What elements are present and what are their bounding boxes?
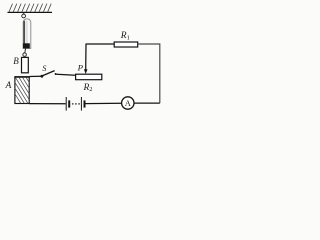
- top wire corner to R1: [86, 43, 115, 45]
- switch lever: [43, 71, 55, 76]
- svg-text:1: 1: [127, 34, 130, 41]
- wire R1 to right corner and down: [138, 44, 160, 103]
- svg-text:A: A: [125, 98, 132, 108]
- block A hatched body: [15, 77, 29, 104]
- slider arrowhead P: [84, 69, 88, 74]
- svg-text:B: B: [13, 56, 19, 66]
- block top edge thick: [14, 76, 29, 78]
- battery cell 1 negative plate (short thick): [68, 100, 70, 107]
- switch right terminal: [55, 73, 57, 75]
- hook stub: [23, 12, 25, 14]
- battery cell 1 positive plate (long thin): [65, 97, 67, 111]
- svg-text:P: P: [77, 63, 84, 73]
- ammeter circle: [122, 97, 134, 109]
- lower ring: [23, 53, 27, 57]
- battery cell 2 negative plate (short thick): [84, 100, 86, 107]
- cylinder dark bottom band: [23, 43, 30, 48]
- ceiling hatching: [9, 4, 51, 12]
- wire ammeter to right corner: [134, 102, 160, 104]
- slider wire vertical: [85, 44, 87, 70]
- svg-text:2: 2: [89, 86, 92, 93]
- wire battery to ammeter: [86, 102, 122, 104]
- svg-text:S: S: [42, 64, 46, 73]
- cylinder gray mid stripe: [25, 21, 27, 49]
- battery dashed link: [72, 103, 80, 105]
- wire block to switch: [30, 75, 42, 77]
- battery cell 2 positive plate (long thin): [80, 97, 82, 111]
- hanging ring: [22, 14, 26, 18]
- cylinder dark left wall: [23, 21, 25, 49]
- resistor R1 box: [114, 42, 138, 47]
- switch S left terminal dot: [41, 75, 44, 78]
- link line below cylinder: [24, 48, 27, 52]
- spring cylinder body: [23, 19, 31, 49]
- rheostat R2 box: [76, 74, 102, 80]
- tube B: [22, 57, 29, 72]
- bottom wire block to battery: [29, 103, 65, 105]
- svg-text:A: A: [5, 81, 12, 91]
- ceiling support line: [8, 11, 53, 13]
- block hatching: [15, 77, 29, 103]
- wire switch to R2: [56, 74, 75, 75]
